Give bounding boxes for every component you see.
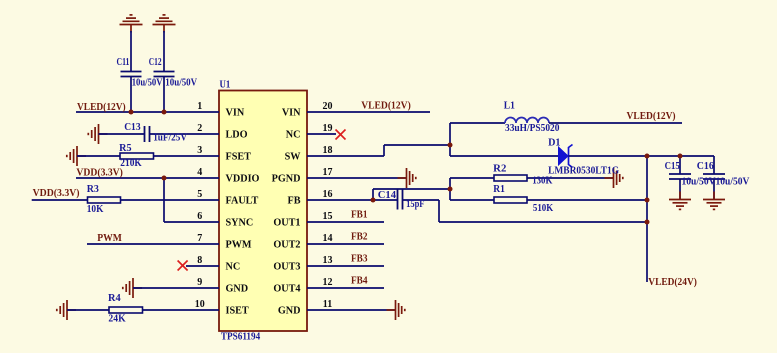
wire VLED(12V) rail to pin 1 xyxy=(76,111,219,113)
svg-text:C12: C12 xyxy=(149,57,162,68)
svg-text:PWM: PWM xyxy=(97,233,122,244)
wire C14 right lead xyxy=(403,199,440,201)
svg-text:VLED(24V): VLED(24V) xyxy=(648,277,697,288)
wire branch to pin 6 xyxy=(164,221,219,223)
wire pin 13 FB3 xyxy=(307,265,384,267)
svg-text:3: 3 xyxy=(197,145,202,156)
svg-text:18: 18 xyxy=(323,145,333,156)
ground at R4 xyxy=(57,300,76,320)
ground at pin 17 PGND xyxy=(398,168,416,188)
svg-text:NC: NC xyxy=(286,129,301,140)
wire pin 14 FB2 xyxy=(307,243,384,245)
junction output node C14 branch xyxy=(645,220,650,225)
svg-text:PGND: PGND xyxy=(272,173,301,184)
wire R5 to pin 3 xyxy=(154,155,220,157)
svg-text:FSET: FSET xyxy=(226,151,252,162)
svg-text:24K: 24K xyxy=(108,314,125,325)
capacitor C15 xyxy=(669,174,691,179)
svg-text:20: 20 xyxy=(323,101,333,112)
capacitor C12 xyxy=(154,72,175,77)
svg-text:U1: U1 xyxy=(220,80,231,91)
junction SW node xyxy=(448,143,453,148)
wire C14 branch to output node xyxy=(439,221,647,223)
diode D1 LMBR0530LT1G xyxy=(559,147,569,165)
wire C16 upper stem xyxy=(713,156,715,174)
wire pin 18 SW horizontal xyxy=(307,155,384,157)
svg-text:6: 6 xyxy=(197,211,202,222)
wire C12 upper stem xyxy=(163,31,165,72)
svg-text:C14: C14 xyxy=(378,190,396,201)
wire SYNC vertical branch xyxy=(163,178,165,222)
svg-text:17: 17 xyxy=(323,167,333,178)
svg-text:OUT4: OUT4 xyxy=(273,283,300,294)
op-amp U1 TPS61194 IC body xyxy=(219,91,307,332)
no-connect X pin 19 xyxy=(336,130,346,140)
svg-text:10K: 10K xyxy=(87,204,104,215)
svg-text:10: 10 xyxy=(195,299,205,310)
svg-text:C13: C13 xyxy=(124,122,140,133)
svg-text:VIN: VIN xyxy=(226,107,245,118)
svg-text:GND: GND xyxy=(226,283,249,294)
svg-text:C15: C15 xyxy=(665,161,680,172)
junction output node R1 xyxy=(645,198,650,203)
svg-text:VDD(3.3V): VDD(3.3V) xyxy=(76,167,123,178)
resistor R1 xyxy=(494,197,527,203)
svg-text:15: 15 xyxy=(323,211,333,222)
svg-text:5: 5 xyxy=(197,189,202,200)
wire SW to D1 anode xyxy=(450,155,559,157)
svg-text:10u/50V: 10u/50V xyxy=(682,176,717,187)
svg-text:R3: R3 xyxy=(87,184,99,195)
capacitor C14 xyxy=(398,190,403,210)
wire C13 to pin 2 xyxy=(150,133,220,135)
inductor L1 xyxy=(505,118,549,123)
svg-text:7: 7 xyxy=(197,233,202,244)
svg-text:LMBR0530LT1G: LMBR0530LT1G xyxy=(548,165,619,176)
wire R3 to pin 5 xyxy=(121,199,220,201)
wire C15 lower stem xyxy=(679,179,681,200)
svg-text:12: 12 xyxy=(323,277,333,288)
wire gnd to C13 xyxy=(99,133,145,135)
wire FB up branch xyxy=(372,189,374,200)
wire gnd to R4 xyxy=(67,309,109,311)
wire pin 20 VLED(12V) xyxy=(307,111,430,113)
wire gnd to pin 9 xyxy=(133,287,219,289)
wire C16 lower stem xyxy=(713,179,715,200)
junction FB divider xyxy=(448,187,453,192)
svg-text:ISET: ISET xyxy=(226,305,249,316)
junction FB/C14 xyxy=(371,198,376,203)
wire pin 11 GND xyxy=(307,309,396,311)
wire VDD(3.3V) to pin 4 xyxy=(76,177,219,179)
wire pin 12 FB4 xyxy=(307,287,384,289)
svg-text:11: 11 xyxy=(323,299,332,310)
svg-text:VDD(3.3V): VDD(3.3V) xyxy=(33,188,80,199)
svg-text:FAULT: FAULT xyxy=(226,195,259,206)
svg-text:19: 19 xyxy=(323,123,333,134)
junction output node top xyxy=(645,154,650,159)
svg-text:130K: 130K xyxy=(532,176,552,187)
wire stub pin 8 NC xyxy=(186,265,219,267)
wire pin 15 FB1 xyxy=(307,221,384,223)
resistor R5 xyxy=(120,153,154,159)
junction C12/rail xyxy=(162,110,167,115)
svg-text:FB2: FB2 xyxy=(351,232,368,243)
wire VDD(3.3V) to R3 xyxy=(32,199,88,201)
resistor R3 xyxy=(88,197,121,203)
svg-text:FB3: FB3 xyxy=(351,254,368,265)
junction C15 tap xyxy=(678,154,683,159)
wire output node to C15 C16 xyxy=(647,155,714,157)
svg-text:VIN: VIN xyxy=(282,107,301,118)
wire FB to C14 left plate xyxy=(373,199,398,201)
svg-text:R2: R2 xyxy=(493,164,506,175)
svg-text:510K: 510K xyxy=(533,203,553,214)
wire SW to L1 xyxy=(450,122,505,124)
ground below C15 xyxy=(669,192,691,210)
wire C12 lower stem xyxy=(163,77,165,113)
wire FB bypass over C14 xyxy=(373,188,450,190)
ground at C13 xyxy=(88,124,107,144)
ground above C12 xyxy=(153,15,176,33)
svg-text:210K: 210K xyxy=(120,158,142,169)
svg-text:10u/50V: 10u/50V xyxy=(132,78,163,89)
svg-text:9: 9 xyxy=(197,277,202,288)
svg-text:GND: GND xyxy=(278,305,301,316)
ground at R2 xyxy=(605,168,623,188)
wire L1 to VLED(12V) xyxy=(549,122,682,124)
wire SW node vertical xyxy=(449,123,451,156)
ground at R5 xyxy=(67,146,86,166)
ground at pin 11 xyxy=(387,300,405,320)
svg-text:16: 16 xyxy=(323,189,333,200)
svg-text:8: 8 xyxy=(197,255,202,266)
svg-text:TPS61194: TPS61194 xyxy=(221,332,260,343)
wire stub pin 19 NC xyxy=(307,133,336,135)
svg-text:LDO: LDO xyxy=(226,129,248,140)
ground at pin 9 xyxy=(123,278,142,298)
svg-text:L1: L1 xyxy=(504,100,515,111)
svg-text:OUT3: OUT3 xyxy=(273,261,300,272)
ground above C11 xyxy=(120,15,143,33)
svg-text:NC: NC xyxy=(226,261,241,272)
wire C11 lower stem xyxy=(130,77,132,113)
svg-text:10u/50V: 10u/50V xyxy=(165,78,197,89)
wire R1 to output node xyxy=(527,199,647,201)
wire to R2 xyxy=(450,177,494,179)
wire PWM to pin 7 xyxy=(87,243,219,245)
resistor R4 xyxy=(109,307,143,313)
capacitor C13 xyxy=(145,126,150,142)
wire divider vertical xyxy=(449,178,451,200)
svg-text:PWM: PWM xyxy=(226,239,252,250)
svg-text:4: 4 xyxy=(197,167,202,178)
wire output node vertical VLED(24V) xyxy=(646,156,648,282)
wire SW step vertical xyxy=(383,145,385,156)
wire SW step horizontal xyxy=(384,144,450,146)
svg-text:VLED(12V): VLED(12V) xyxy=(627,111,676,122)
wire to R1 xyxy=(450,199,494,201)
svg-text:2: 2 xyxy=(197,123,202,134)
wire pin 16 FB xyxy=(307,199,373,201)
svg-text:VLED(12V): VLED(12V) xyxy=(361,101,411,112)
svg-text:15pF: 15pF xyxy=(406,199,424,210)
svg-text:1uF/25V: 1uF/25V xyxy=(153,132,188,143)
wire D1 cathode to output node xyxy=(569,155,648,157)
svg-text:13: 13 xyxy=(323,255,333,266)
svg-text:R5: R5 xyxy=(119,143,131,154)
no-connect X pin 8 xyxy=(178,261,188,271)
svg-text:C11: C11 xyxy=(117,57,130,68)
svg-text:VLED(12V): VLED(12V) xyxy=(77,102,126,113)
wire pin 17 PGND xyxy=(307,177,407,179)
svg-text:1: 1 xyxy=(197,101,202,112)
svg-text:D1: D1 xyxy=(548,137,560,148)
capacitor C16 xyxy=(703,174,725,179)
svg-text:FB1: FB1 xyxy=(351,210,368,221)
wire C14 branch down xyxy=(438,200,440,222)
svg-text:R4: R4 xyxy=(108,293,121,304)
junction VDD/SYNC branch xyxy=(162,176,167,181)
wire C11 upper stem xyxy=(130,31,132,72)
wire R2 to ground xyxy=(527,177,614,179)
wire gnd to R5 xyxy=(77,155,120,157)
svg-text:10u/50V: 10u/50V xyxy=(716,176,751,187)
wire C15 upper stem xyxy=(679,156,681,174)
svg-text:OUT1: OUT1 xyxy=(273,217,300,228)
ground below C16 xyxy=(703,192,725,210)
svg-text:OUT2: OUT2 xyxy=(273,239,300,250)
svg-text:C16: C16 xyxy=(697,161,714,172)
svg-text:SYNC: SYNC xyxy=(226,217,254,228)
resistor R2 xyxy=(494,175,527,181)
svg-text:33uH/PS5020: 33uH/PS5020 xyxy=(505,123,560,134)
svg-text:SW: SW xyxy=(285,151,302,162)
svg-text:FB4: FB4 xyxy=(351,276,368,287)
wire R4 to pin 10 xyxy=(143,309,220,311)
capacitor C11 xyxy=(121,72,142,77)
junction C11/rail xyxy=(129,110,134,115)
svg-text:R1: R1 xyxy=(493,184,505,195)
svg-text:FB: FB xyxy=(287,195,300,206)
svg-text:14: 14 xyxy=(323,233,333,244)
svg-text:VDDIO: VDDIO xyxy=(226,173,260,184)
